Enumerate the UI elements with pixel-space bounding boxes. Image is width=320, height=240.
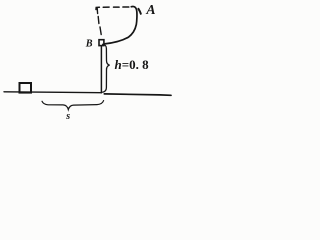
block on ground (left) [20,83,32,93]
svg-text:B: B [85,39,93,50]
arc ramp from B to A [105,7,137,44]
dashed vertical line (above B) [97,8,101,34]
svg-text:A: A [145,2,155,17]
wall (vertical line below B) [100,46,102,93]
brace for s (under ground) [42,101,104,110]
tick at point A [138,9,140,14]
dashed horizontal line (top) [96,7,129,10]
ground line right segment [104,94,171,95]
svg-text:h=0. 8: h=0. 8 [115,57,150,72]
brace for h (right of wall) [103,44,110,92]
svg-text:s: s [65,111,70,122]
ground line left segment [4,91,101,94]
small square at B [99,40,104,46]
